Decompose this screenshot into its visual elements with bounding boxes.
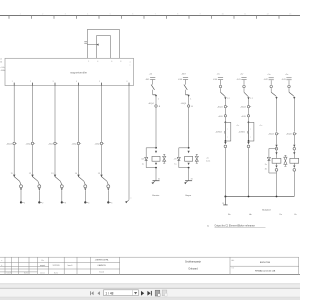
node branch A relay bottom	[155, 167, 157, 169]
svg-text:-40Q4: -40Q4	[268, 134, 274, 136]
wire branch R4 long	[293, 99, 295, 132]
wire elbow column Y3	[55, 177, 60, 182]
title block far-left row line	[0, 265, 49, 267]
wire column Y2 middle segment	[32, 145, 34, 175]
bus junction node R2	[248, 196, 250, 198]
svg-text:+24v: +24v	[0, 67, 4, 69]
svg-text:1/12/120: 1/12/120	[53, 265, 60, 267]
socket contact column Y3	[60, 185, 63, 188]
wire branch R1 to bus	[224, 148, 226, 197]
svg-text:31: 31	[222, 203, 224, 205]
toolbar inner border	[0, 287, 300, 289]
wire branch B jog	[185, 90, 187, 95]
wire elbow column Y4	[79, 177, 84, 182]
title block column divider 1	[11, 257, 13, 274]
svg-text:+40S: +40S	[218, 116, 223, 118]
plug pin into coil branch A	[155, 151, 157, 153]
svg-text:1a: 1a	[142, 163, 144, 165]
suppression diode V41	[269, 148, 277, 150]
wire column Y4 upper segment	[78, 86, 80, 142]
svg-text:2v: 2v	[0, 59, 2, 61]
ruler tick 10	[233, 16, 235, 19]
svg-text:31: 31	[158, 178, 160, 180]
output terminal branch A	[153, 180, 160, 182]
title block column divider 4	[37, 257, 39, 274]
switch contact branch B	[184, 85, 187, 90]
wire branch B	[188, 97, 190, 105]
output terminal branch B	[185, 180, 192, 182]
svg-text:-40A1: -40A1	[0, 69, 6, 72]
socket contact below coil 40Y08	[275, 169, 278, 172]
title block column divider 5	[48, 257, 50, 274]
wire elbow branch R4	[288, 88, 290, 92]
suppression diode V40 branch A	[146, 147, 156, 149]
socket contact column Y4	[84, 185, 87, 188]
svg-text:-V4: -V4	[141, 159, 144, 161]
wire branch A	[155, 97, 157, 105]
svg-text:+5v: +5v	[267, 74, 270, 76]
toolbar export icon	[155, 290, 160, 296]
svg-text:4-10c: 4-10c	[206, 161, 210, 163]
wire elbow branch R1	[220, 88, 222, 92]
plug pin branch R2	[247, 97, 249, 99]
socket contact below switch branch R1	[224, 145, 227, 148]
chassis tag column 6	[126, 200, 129, 203]
terminal of solenoid 40Y02	[38, 201, 40, 203]
svg-text:-40Q4: -40Q4	[181, 103, 187, 105]
ruler tick 1	[31, 16, 33, 19]
plug pin column Y4	[77, 175, 79, 178]
wire branch R1	[220, 80, 222, 85]
terminal of solenoid 40Y04	[84, 201, 86, 203]
node switch bottom branch R2	[248, 140, 250, 142]
toolbar page dropdown arrow	[134, 292, 137, 294]
wire column 6 vertical	[128, 86, 130, 200]
wire link between loops	[87, 44, 96, 46]
svg-text:1: 1	[190, 98, 191, 100]
svg-text:Venstre: Venstre	[152, 194, 160, 197]
svg-text:CAMSON: CAMSON	[97, 264, 106, 267]
socket contact below switch branch R2	[247, 145, 250, 148]
plug pin column Y1	[13, 175, 15, 178]
wire column Y1 middle segment	[13, 145, 15, 175]
plug pin below coil branch B	[188, 163, 190, 165]
toolbar page number input	[104, 290, 139, 296]
plug pin into coil branch B	[188, 151, 190, 153]
pressure switch -40S04	[225, 122, 230, 141]
plug pin column Y5	[100, 175, 102, 178]
terminal of solenoid 40Y03	[61, 201, 63, 203]
svg-text:1a: 1a	[174, 163, 176, 165]
svg-text:Bv: Bv	[228, 214, 230, 216]
ruler tick 0	[8, 16, 10, 19]
wire branch B to output	[188, 168, 190, 181]
solenoid coil 40Y08	[272, 158, 281, 163]
svg-text:6: 6	[111, 61, 112, 63]
title block column divider 7	[76, 257, 78, 274]
svg-text:8: 8	[120, 61, 121, 63]
svg-text:+5v: +5v	[217, 74, 220, 76]
wire into coil branch R3	[276, 150, 278, 158]
svg-text:HYB4AD.02.00.05.v6B: HYB4AD.02.00.05.v6B	[255, 269, 276, 272]
toolbar print icon disabled	[162, 290, 167, 296]
wire inner loop above block A40	[97, 36, 111, 59]
wire branch A to output	[155, 168, 157, 181]
svg-text:5: 5	[111, 202, 112, 204]
toolbar background upper band	[0, 284, 300, 289]
pressure switch -40S05	[249, 122, 254, 141]
svg-text:+5v: +5v	[285, 74, 288, 76]
title block divider right box	[229, 257, 231, 274]
svg-text:15: 15	[98, 173, 100, 175]
svg-text:4: 4	[76, 81, 77, 83]
ruler tick 8	[188, 16, 190, 19]
svg-text:-40Q4: -40Q4	[148, 103, 154, 105]
svg-text:Kv: Kv	[294, 214, 296, 216]
toolbar next-page button	[141, 291, 144, 296]
wire coil 40Y08 to bus	[276, 171, 278, 196]
toolbar first-page button	[89, 291, 92, 295]
svg-text:Ov: Ov	[41, 260, 43, 262]
title block left row line 1	[0, 262, 120, 264]
svg-text:3: 3	[65, 202, 66, 204]
svg-text:o: o	[130, 61, 131, 63]
svg-text:5: 5	[99, 81, 100, 83]
bus wire 31 bakaksel	[225, 196, 294, 198]
svg-text:-V4: -V4	[174, 159, 177, 161]
wire column Y2 upper segment	[32, 86, 34, 142]
toolbar main row background	[0, 289, 300, 300]
valve symbol between coils	[284, 157, 287, 161]
plug pin column Y3	[54, 175, 56, 178]
svg-text:Name: Name	[24, 272, 28, 274]
wire column Y1 lower segment	[20, 190, 22, 201]
wire branch R1	[224, 99, 226, 105]
wire elbow branch R2	[243, 88, 245, 92]
svg-text:mapet: mapet	[40, 264, 46, 267]
title block left row line 2	[0, 268, 120, 270]
plug pin branch A	[155, 95, 157, 97]
plug pin column Y2	[31, 175, 33, 178]
socket contact column Y1	[20, 185, 23, 188]
toolbar top border	[0, 283, 300, 285]
node branch B relay top	[188, 147, 190, 149]
ruler tick 5	[121, 16, 123, 19]
wire column Y1 upper segment	[13, 86, 15, 142]
wire elbow column Y2	[33, 177, 38, 182]
svg-text:c: c	[130, 64, 131, 66]
svg-text:Av: Av	[249, 213, 251, 216]
svg-text:Onboard: Onboard	[188, 268, 198, 271]
svg-text:2b: 2b	[265, 169, 267, 171]
svg-text:2: 2	[88, 61, 89, 63]
wire column Y5 middle segment	[101, 145, 103, 175]
solenoid coil 40Y09	[290, 158, 299, 163]
svg-text:BW107DB: BW107DB	[260, 262, 271, 264]
node switch top branch R1	[225, 122, 227, 124]
plug pin below coil 40Y09	[293, 163, 295, 165]
wire elbow column Y5	[102, 177, 107, 182]
ruler tick 11	[256, 16, 258, 19]
ruler tick 7	[166, 16, 168, 19]
svg-text:6: 6	[126, 81, 127, 83]
plug pin branch R1	[224, 97, 226, 99]
wire branch A jog	[152, 90, 154, 95]
socket contact column Y2	[38, 185, 41, 188]
socket contact branch R4	[288, 85, 291, 88]
svg-text:1: 1	[24, 202, 25, 204]
toolbar last-page button	[147, 291, 150, 296]
svg-text:+1v: +1v	[236, 125, 239, 127]
svg-text:J.BEHER-KEPA: J.BEHER-KEPA	[95, 259, 109, 262]
svg-text:Bakaksel: Bakaksel	[262, 209, 271, 211]
svg-text:Name: Name	[54, 272, 58, 274]
wire column Y2 lower segment	[38, 190, 40, 201]
title block column divider 2	[18, 257, 20, 274]
svg-text:+1v: +1v	[259, 125, 262, 127]
wire branch R2 to bus	[248, 148, 250, 197]
wire branch R2	[248, 99, 250, 105]
title block column divider 6	[63, 257, 65, 274]
svg-text:b: b	[1, 265, 2, 267]
svg-text:1 2: 1 2	[250, 98, 253, 100]
title block top border	[0, 256, 299, 258]
ruler tick 12	[278, 16, 280, 19]
title block left row line 3	[0, 271, 38, 273]
svg-text:12: 12	[29, 173, 31, 175]
wire column Y3 lower segment	[61, 190, 63, 201]
svg-text:2: 2	[30, 81, 31, 83]
svg-text:-40S04: -40S04	[215, 132, 222, 134]
plug pin below coil 40Y08	[276, 163, 278, 165]
wire elbow branch R3	[270, 88, 272, 92]
svg-text:1: 1	[158, 98, 159, 100]
bus junction node R3	[276, 196, 278, 198]
svg-text:+2v: +2v	[206, 158, 209, 160]
wire branch B long segment	[188, 108, 190, 148]
wire coil 40Y09 to bus	[293, 171, 295, 196]
wire column Y5 upper segment	[101, 86, 103, 142]
svg-text:Dv: Dv	[280, 214, 282, 216]
svg-text:11: 11	[11, 173, 13, 175]
bus junction node R1	[224, 196, 226, 198]
title block column divider 3	[28, 257, 30, 274]
svg-text:1: 1	[12, 81, 13, 83]
block A40 bottom pin ticks and numbers	[13, 83, 15, 86]
svg-text:3: 3	[52, 81, 53, 83]
page bottom border	[0, 273, 300, 275]
wire branch A from fuse	[152, 80, 154, 85]
wire branch R3	[270, 80, 272, 85]
svg-text:4: 4	[97, 61, 98, 63]
node switch top branch R2	[248, 122, 250, 124]
svg-text:a: a	[1, 260, 2, 262]
socket contact below coil 40Y09	[293, 169, 296, 172]
valve symbol branch B	[195, 156, 198, 158]
svg-text:Output fra C1 Element/Bloker r: Output fra C1 Element/Bloker referanse	[215, 225, 256, 228]
svg-text:Guard: Guard	[99, 272, 104, 274]
title block column divider 8	[90, 257, 92, 274]
title block right edge	[298, 257, 300, 274]
svg-text:barc0: barc0	[68, 265, 73, 267]
plug pin branch R3 lower	[275, 145, 277, 147]
title block right box mid line	[230, 265, 299, 267]
svg-text:1 2: 1 2	[227, 98, 230, 100]
wire column Y3 middle segment	[54, 145, 56, 175]
plug pin below switch branch R2	[247, 142, 249, 144]
wire into coil branch R4	[293, 150, 295, 158]
node switch bottom branch R1	[225, 140, 227, 142]
svg-text:+5v: +5v	[240, 74, 243, 76]
relay coil 40K branch B	[185, 156, 193, 161]
bus ground terminal	[224, 197, 226, 205]
wire branch R4	[293, 135, 295, 145]
plug pin below switch branch R1	[224, 142, 226, 144]
svg-text:1 / 48: 1 / 48	[105, 291, 113, 295]
socket contact column Y5	[107, 185, 110, 188]
wire column Y5 lower segment	[107, 190, 109, 201]
toolbar previous-page button	[98, 291, 100, 295]
svg-text:Sedekampanje: Sedekampanje	[185, 261, 202, 264]
wire outer loop above block A40	[87, 30, 119, 59]
title block column divider 0	[4, 257, 6, 274]
valve symbol branch A	[163, 156, 166, 158]
wire column Y4 middle segment	[78, 145, 80, 175]
wire branch R2	[243, 80, 245, 85]
svg-text:+40S: +40S	[241, 116, 246, 118]
plug pin above coil branch R4	[293, 152, 295, 154]
wire column Y3 upper segment	[54, 86, 56, 142]
page top border line	[0, 15, 300, 17]
suppression diode V40 branch B	[179, 147, 189, 149]
connector X40 pin on inner loop	[96, 44, 98, 46]
wire column Y4 lower segment	[84, 190, 86, 201]
ruler tick 3	[76, 16, 78, 19]
svg-text:2: 2	[42, 202, 43, 204]
node branch B relay bottom	[188, 167, 190, 169]
title block column divider 9	[119, 257, 121, 274]
wire branch R3	[276, 135, 278, 145]
plug pin branch R4	[293, 97, 295, 99]
socket contact branch R4 lower	[293, 147, 296, 150]
ruler tick 6	[143, 16, 145, 19]
ruler tick 4	[98, 16, 100, 19]
socket contact branch R1	[219, 85, 222, 88]
svg-text:31: 31	[191, 178, 193, 180]
svg-text:-40S05: -40S05	[238, 132, 245, 134]
plug pin branch B	[188, 95, 190, 97]
ruler tick 9	[211, 16, 213, 19]
ruler tick 2	[53, 16, 55, 19]
svg-text:-40Q4: -40Q4	[240, 106, 246, 108]
plug pin below coil branch A	[155, 163, 157, 165]
relay coil 40K branch A	[152, 156, 160, 161]
connector X40 marks on outer loop	[84, 41, 87, 43]
socket contact branch R3 lower	[275, 147, 278, 150]
svg-text:magnetventiler: magnetventiler	[70, 70, 87, 74]
node branch A relay top	[155, 147, 157, 149]
socket contact branch R3	[270, 85, 273, 88]
toolbar lower strip	[0, 297, 300, 300]
plug pin branch R4 lower	[293, 145, 295, 147]
wire branch B from fuse	[185, 80, 187, 85]
wire elbow column Y1	[14, 177, 19, 182]
plug pin branch R3	[275, 97, 277, 99]
terminal of solenoid 40Y05	[107, 201, 109, 203]
svg-text:-40Q4: -40Q4	[286, 134, 292, 136]
socket contact branch R2	[243, 85, 246, 88]
svg-text:-40Q4: -40Q4	[217, 106, 223, 108]
svg-text:13: 13	[51, 173, 53, 175]
plug pin above coil branch R3	[275, 152, 277, 154]
svg-text:Høyre: Høyre	[185, 194, 192, 197]
terminal of solenoid 40Y01	[20, 201, 22, 203]
wire branch R4	[288, 80, 290, 85]
svg-text:4: 4	[88, 202, 89, 204]
valve block A40 magnetventiler	[5, 58, 134, 85]
wire branch R3 long	[276, 99, 278, 132]
svg-text:1): 1)	[207, 226, 209, 228]
svg-text:14: 14	[75, 173, 77, 175]
switch contact branch A	[151, 85, 154, 90]
svg-text:2a: 2a	[265, 164, 267, 166]
svg-text:4b: 4b	[0, 62, 2, 64]
wire branch A long segment	[155, 108, 157, 148]
